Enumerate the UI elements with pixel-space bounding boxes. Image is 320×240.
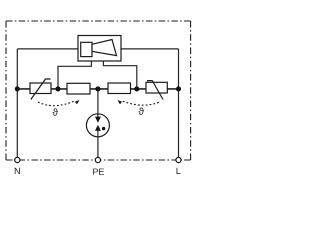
enclosure boundary left (dash-dot): [5, 21, 7, 160]
wire N vertical: [16, 49, 18, 157]
junction dot bus-b: [134, 86, 139, 91]
wire top-right horizontal: [121, 48, 179, 50]
junction dot bus-left: [15, 86, 20, 91]
varistor RV2 body: [146, 82, 167, 93]
junction dot bus-a: [55, 86, 60, 91]
enclosure boundary bottom (dash-dot): [6, 159, 191, 161]
theta label right: [139, 108, 144, 115]
junction dot bus-right: [176, 86, 181, 91]
junction dot bus-center: [95, 86, 100, 91]
horn driver square: [81, 42, 92, 56]
thermal arc left arrowhead: [75, 100, 80, 104]
wire box-left drop: [58, 61, 91, 89]
enclosure boundary right (dash-dot): [190, 21, 192, 160]
disconnector F1: [67, 83, 90, 94]
horn: [92, 40, 117, 56]
spark gap arrow top: [95, 117, 101, 123]
theta label left: [53, 108, 58, 115]
spark gap electrode stub bottom: [97, 130, 99, 137]
spark gap electrode stub top: [97, 114, 99, 118]
thermal disconnect arc left: [38, 101, 76, 106]
label N: [15, 168, 20, 174]
disconnector F2: [108, 83, 131, 94]
spark gap G1 circle: [86, 114, 109, 137]
monitoring device box U1: [78, 36, 121, 62]
thermal disconnect arc right: [121, 101, 158, 106]
terminal PE: [95, 157, 100, 162]
spark gap gas dot: [102, 127, 105, 130]
thermal arc right arrowhead: [118, 100, 123, 104]
wire L vertical: [178, 49, 180, 157]
wire PE upper: [97, 89, 99, 114]
spark gap arrow bottom: [95, 125, 101, 131]
terminal N: [15, 157, 20, 162]
wire main bus: [17, 88, 178, 90]
label L: [177, 168, 181, 174]
varistor RV1 diagonal: [31, 79, 51, 100]
varistor RV2 diagonal: [147, 81, 163, 100]
wire PE lower: [97, 137, 99, 158]
terminal L: [176, 157, 181, 162]
varistor RV1 body: [30, 83, 51, 94]
enclosure boundary top (dash-dot): [6, 20, 191, 22]
wire box-right drop: [103, 61, 136, 89]
label PE: [93, 169, 104, 175]
wire top-left horizontal: [17, 48, 78, 50]
